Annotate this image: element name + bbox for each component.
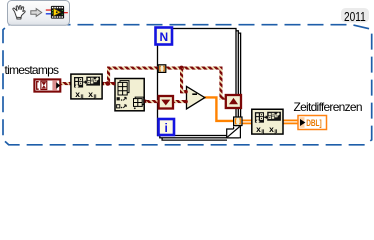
i iteration terminal <box>159 119 175 135</box>
wire stub into up shift register <box>219 97 228 100</box>
gray block arrow icon <box>31 9 42 17</box>
subtract function <box>187 86 205 109</box>
svg-text:timestamps: timestamps <box>5 63 60 77</box>
wire down shift register to subtract bottom input <box>173 100 187 103</box>
toolbar tab <box>8 1 70 26</box>
timestamps array control terminal <box>34 79 60 91</box>
array glyph top-left with 3d <box>118 81 129 95</box>
svg-text:x: x <box>75 89 80 99</box>
page curl bottom-right of loop <box>227 126 241 138</box>
for loop echo frame 1 <box>160 31 239 138</box>
up shift register <box>226 95 241 108</box>
orange array wire icon2 to indicator <box>283 119 298 121</box>
wire stub to subtract top input <box>180 90 187 93</box>
length input row <box>117 105 120 108</box>
snippet dashed blue border <box>3 25 372 145</box>
DBL array indicator <box>298 116 327 130</box>
subtract input dots <box>184 90 188 94</box>
orange scalar wire from subtract to output tunnel <box>205 97 234 121</box>
wire terminal to transpose icon <box>60 82 72 85</box>
transpose icon U1 <box>71 74 102 100</box>
down shift register <box>159 96 173 109</box>
output subset glyph with 3d <box>134 97 144 106</box>
wire riser down from junction B <box>180 68 183 93</box>
filmstrip VI icon <box>46 6 68 19</box>
array subset icon <box>113 79 146 111</box>
wire top run to loop tunnel <box>107 67 159 70</box>
auto-index input tunnel <box>158 65 166 73</box>
svg-text:i: i <box>165 121 168 135</box>
wire right riser down to shift register <box>219 67 222 100</box>
hand cursor icon <box>13 6 25 19</box>
svg-text:Zeitdifferenzen: Zeitdifferenzen <box>294 100 363 114</box>
wire inside loop from tunnel to right riser <box>166 67 223 70</box>
transpose icon U2 (after loop) <box>252 109 283 135</box>
wire array-subset to down shift register <box>146 100 160 103</box>
svg-text:ij: ij <box>81 94 85 100</box>
svg-text:x: x <box>88 89 93 99</box>
junction B dot <box>179 66 184 71</box>
index input row <box>117 97 120 100</box>
orange array wire tunnel to icon2 <box>242 120 298 123</box>
svg-text:N: N <box>159 30 168 44</box>
svg-text:2011: 2011 <box>344 10 366 24</box>
wire transpose to array-subset <box>102 82 116 85</box>
N count terminal <box>156 28 173 45</box>
svg-text:ji: ji <box>93 94 98 100</box>
junction A dot <box>106 81 111 86</box>
2011 version label <box>341 8 369 23</box>
auto-index output tunnel <box>234 117 242 126</box>
transpose icon U1 input/output nubs <box>69 82 71 85</box>
svg-text:DBL]: DBL] <box>306 118 322 129</box>
for loop main frame <box>158 29 237 136</box>
wire riser up from junction A <box>107 67 110 86</box>
for loop echo frame 2 <box>162 33 241 140</box>
